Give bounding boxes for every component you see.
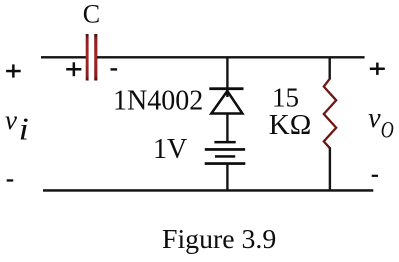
label 15 KOhm (resistor value) (269, 82, 312, 141)
svg-text:1N4002: 1N4002 (113, 85, 203, 116)
label 1V (battery value) (153, 134, 187, 165)
wire: middle branch, top rail down to diode cathode (226, 57, 228, 97)
node - (input terminal, bottom left) (7, 179, 14, 181)
svg-text:C: C (83, 0, 100, 29)
wire: top rail, from capacitor right plate to output side (97, 56, 365, 58)
svg-text:1V: 1V (153, 134, 187, 165)
label C (capacitor designator) (83, 0, 100, 29)
wire: top rail, input side up to capacitor left plate (41, 56, 86, 58)
node + (input terminal, top left) (6, 64, 21, 77)
wire: diode anode down to battery top plate (226, 114, 228, 141)
wire: resistor bottom to bottom rail (329, 148, 331, 191)
polarity - (capacitor right side) (111, 68, 118, 70)
label v_O (output voltage) (368, 103, 394, 143)
svg-text:O: O (381, 117, 394, 143)
battery 1V (two-cell: short/long/short/long plates) (205, 141, 246, 165)
svg-text:v: v (368, 103, 381, 134)
label v_i (input voltage) (5, 105, 29, 146)
svg-text:KΩ: KΩ (269, 109, 312, 141)
svg-text:i: i (19, 111, 29, 147)
wire: battery bottom plate down to bottom rail (226, 165, 228, 191)
polarity + (capacitor left side) (66, 62, 81, 76)
capacitor C (two dark red plates) (86, 34, 98, 81)
label 1N4002 (diode part number) (113, 85, 203, 116)
resistor R 15 kOhm (dark red zigzag) (324, 79, 336, 149)
diode 1N4002 (cathode bar + triangle pointing up) (209, 87, 243, 113)
wire: right branch, top rail down to resistor (329, 57, 331, 80)
wire: bottom rail (43, 189, 373, 192)
svg-text:v: v (5, 105, 17, 135)
svg-text:15: 15 (272, 82, 299, 112)
node - (output terminal, bottom right) (372, 175, 378, 177)
caption Figure 3.9 (162, 224, 276, 255)
svg-text:Figure 3.9: Figure 3.9 (162, 224, 276, 255)
node + (output terminal, top right) (370, 63, 385, 75)
